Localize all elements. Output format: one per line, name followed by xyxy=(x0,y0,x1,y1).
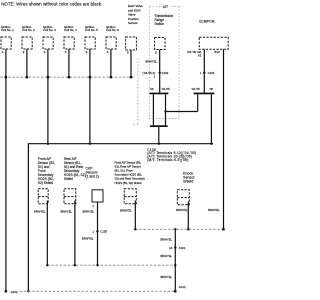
CKP sensors 1 and 2 xyxy=(92,190,103,202)
connector dashed line C101 run xyxy=(0,76,134,78)
svg-text:Sensor: Sensor xyxy=(128,21,138,25)
terminal square B10 wire end xyxy=(222,228,224,230)
rear A/F sensor shield label xyxy=(64,157,86,181)
transmission range switch label xyxy=(155,14,174,26)
ignition coil No.1 label xyxy=(1,25,14,32)
junction dot rear shield drain xyxy=(74,264,76,266)
junction dot lower bar wire xyxy=(158,143,160,145)
shield drain dashed link upper xyxy=(135,228,223,230)
A/T boundary top right dash xyxy=(172,5,182,7)
svg-text:(1 and 2): (1 and 2) xyxy=(86,174,99,178)
junction dot A/F B1 drain xyxy=(134,228,136,230)
EGR valve label xyxy=(128,4,143,25)
svg-text:8: 8 xyxy=(155,50,157,54)
wire CKP drain xyxy=(97,202,99,265)
wire coil4 xyxy=(68,49,70,77)
wire lower bar to shield bus xyxy=(158,127,160,144)
terminal square coil2 xyxy=(26,76,28,78)
svg-text:G102: G102 xyxy=(11,290,18,294)
rear A/F sensor shield xyxy=(64,189,76,204)
svg-text:2: 2 xyxy=(23,50,25,54)
EGR valve and position sensor xyxy=(126,37,137,50)
ground dashed line xyxy=(20,290,175,292)
svg-text:Coil No. 6: Coil No. 6 xyxy=(106,28,119,32)
svg-text:BRN/YEL: BRN/YEL xyxy=(83,210,95,214)
wire coil5 to shield bus xyxy=(89,49,91,144)
junction dot front shield drain xyxy=(46,264,48,266)
wire right branch '04-'05 xyxy=(197,94,199,111)
ignition coil No.6 xyxy=(106,37,116,49)
wire coil1 to ground G102 xyxy=(5,49,7,291)
svg-text:'04-'05: '04-'05 xyxy=(191,87,200,91)
svg-text:2: 2 xyxy=(2,50,4,54)
svg-text:C155: C155 xyxy=(100,229,107,233)
svg-text:C102: C102 xyxy=(208,71,215,75)
ignition coil No.4 label xyxy=(64,25,77,32)
ignition coil No.5 xyxy=(85,37,95,49)
terminal square coil4 xyxy=(68,76,70,78)
wire to ground G101 xyxy=(174,229,176,291)
wire right branch '06 xyxy=(210,94,212,143)
svg-text:A2: A2 xyxy=(198,54,202,58)
svg-text:Coil No. 3: Coil No. 3 xyxy=(43,28,56,32)
ignition coil No.3 xyxy=(43,37,53,49)
svg-text:BRN/YEL: BRN/YEL xyxy=(208,208,220,212)
ignition coil No.3 label xyxy=(43,25,56,32)
svg-text:BRN/YEL: BRN/YEL xyxy=(160,237,172,241)
terminal square coil6 xyxy=(110,76,112,78)
harness divider corner xyxy=(134,124,139,126)
svg-text:ECM/PCM: ECM/PCM xyxy=(199,19,214,23)
svg-text:HO2S (B1, S2) Shield: HO2S (B1, S2) Shield xyxy=(115,181,142,185)
svg-text:BRN/YEL: BRN/YEL xyxy=(120,208,132,212)
junction dot coil3 xyxy=(47,143,49,145)
wire TRS to bus bar xyxy=(159,50,161,94)
wire front A/F shield drain xyxy=(46,201,48,266)
svg-text:Shield: Shield xyxy=(183,180,193,184)
svg-text:2: 2 xyxy=(86,50,88,54)
wire coil2 xyxy=(26,49,28,77)
junction dot '06 branch xyxy=(210,143,212,145)
terminal square coil5 xyxy=(89,76,91,78)
ignition coil No.6 label xyxy=(106,25,119,32)
svg-text:1: 1 xyxy=(92,204,94,208)
svg-text:Shield: Shield xyxy=(64,177,73,181)
CKP sensors label xyxy=(86,166,99,178)
A/T boundary bottom dash xyxy=(149,118,179,120)
svg-text:2: 2 xyxy=(65,50,67,54)
connector C102 dot xyxy=(203,72,205,74)
ignition coil No.5 label xyxy=(85,25,98,32)
svg-text:Switch: Switch xyxy=(155,22,165,26)
connector C155 dot xyxy=(96,230,98,232)
ignition coil No.2 xyxy=(22,37,32,49)
ignition coil No.2 label xyxy=(22,25,35,32)
A/T boundary right dash xyxy=(178,6,180,118)
A/T boundary left dash xyxy=(148,6,150,118)
wire ECM B10 down xyxy=(223,49,225,229)
svg-text:BRN/YEL: BRN/YEL xyxy=(60,210,72,214)
wire coil6 xyxy=(110,49,112,77)
wire EGR to connector line xyxy=(130,50,132,77)
svg-text:'04-'05: '04-'05 xyxy=(161,87,170,91)
wire left branch '04-'05 xyxy=(165,94,167,125)
wire A/F B1 shield drain xyxy=(134,201,136,230)
junction dot G101 drop xyxy=(174,228,176,230)
svg-text:BRN/YEL: BRN/YEL xyxy=(145,60,157,64)
svg-text:Coil No. 5: Coil No. 5 xyxy=(85,28,98,32)
bus bar left xyxy=(150,93,169,95)
svg-text:BRN/YEL: BRN/YEL xyxy=(160,254,172,258)
wire left branch '06 xyxy=(152,94,154,125)
shield bus wire xyxy=(28,144,213,292)
svg-text:Coil No. 1: Coil No. 1 xyxy=(1,28,14,32)
front A/F sensor B2 shield xyxy=(38,189,48,204)
bus bar right xyxy=(194,93,215,95)
front and rear A/F sensor B1 shield label xyxy=(115,160,146,185)
terminal square coil1 xyxy=(5,76,7,78)
svg-text:Coil No. 2: Coil No. 2 xyxy=(22,28,35,32)
terminal square coil3 xyxy=(47,76,49,78)
wire ECM A2 to C102 xyxy=(203,49,205,93)
wire year link horizontal xyxy=(166,111,198,113)
svg-text:34: 34 xyxy=(169,246,173,250)
svg-text:BRN/YEL: BRN/YEL xyxy=(82,237,94,241)
harness divider dashed xyxy=(137,58,139,125)
knock sensor shield xyxy=(177,190,189,205)
wire coil3 to shield bus xyxy=(47,49,49,144)
A/T boundary top left dash xyxy=(149,5,161,7)
junction dot G101 wire xyxy=(174,264,176,266)
svg-text:G101: G101 xyxy=(179,285,186,289)
svg-text:BRN/YEL: BRN/YEL xyxy=(34,210,46,214)
svg-text:'06: '06 xyxy=(209,87,213,91)
connector C101 dot xyxy=(174,246,176,248)
wire rear A/F shield drain xyxy=(74,201,76,266)
connector C162 dot xyxy=(159,72,161,74)
junction dot knock drain xyxy=(187,228,189,230)
bus bar lower xyxy=(150,125,168,127)
junction dot year link xyxy=(164,110,166,112)
svg-text:B10: B10 xyxy=(215,50,220,54)
svg-text:6: 6 xyxy=(127,50,129,54)
svg-text:(M/T: Terminals 6-9)('06): (M/T: Terminals 6-9)('06) xyxy=(147,158,188,162)
ground terminal G101 xyxy=(174,290,176,292)
ignition coil No.1 xyxy=(1,37,11,49)
svg-text:Coil No. 4: Coil No. 4 xyxy=(64,28,77,32)
front and rear A/F sensor B1 shield xyxy=(124,189,136,204)
front A/F sensor B2 shield label xyxy=(38,157,55,185)
svg-text:BRN/YEL: BRN/YEL xyxy=(176,208,188,212)
svg-text:C101: C101 xyxy=(179,246,186,250)
wire knock shield drain xyxy=(187,202,189,230)
junction dot shield bus drop at ground line xyxy=(27,290,29,292)
svg-text:NOTE: Wires shown without colo: NOTE: Wires shown without color codes ar… xyxy=(1,2,102,7)
svg-text:S2) Shield: S2) Shield xyxy=(38,181,53,185)
terminal square EGR xyxy=(130,76,132,78)
ignition coil No.4 xyxy=(64,37,74,49)
svg-text:C162: C162 xyxy=(162,71,169,75)
junction dot CKP drain xyxy=(96,264,98,266)
ground terminal G102 xyxy=(5,290,7,292)
svg-text:'06: '06 xyxy=(150,87,154,91)
connector C108 note xyxy=(147,148,196,162)
ECM/PCM xyxy=(199,37,228,49)
svg-text:BRN/YEL: BRN/YEL xyxy=(160,275,172,279)
transmission range switch xyxy=(155,38,166,50)
knock sensor shield label xyxy=(183,172,195,184)
svg-text:A/T: A/T xyxy=(163,5,168,9)
shield drain dashed link lower xyxy=(47,264,175,266)
svg-text:2: 2 xyxy=(44,50,46,54)
svg-text:2: 2 xyxy=(107,50,109,54)
junction dot coil5 xyxy=(89,143,91,145)
